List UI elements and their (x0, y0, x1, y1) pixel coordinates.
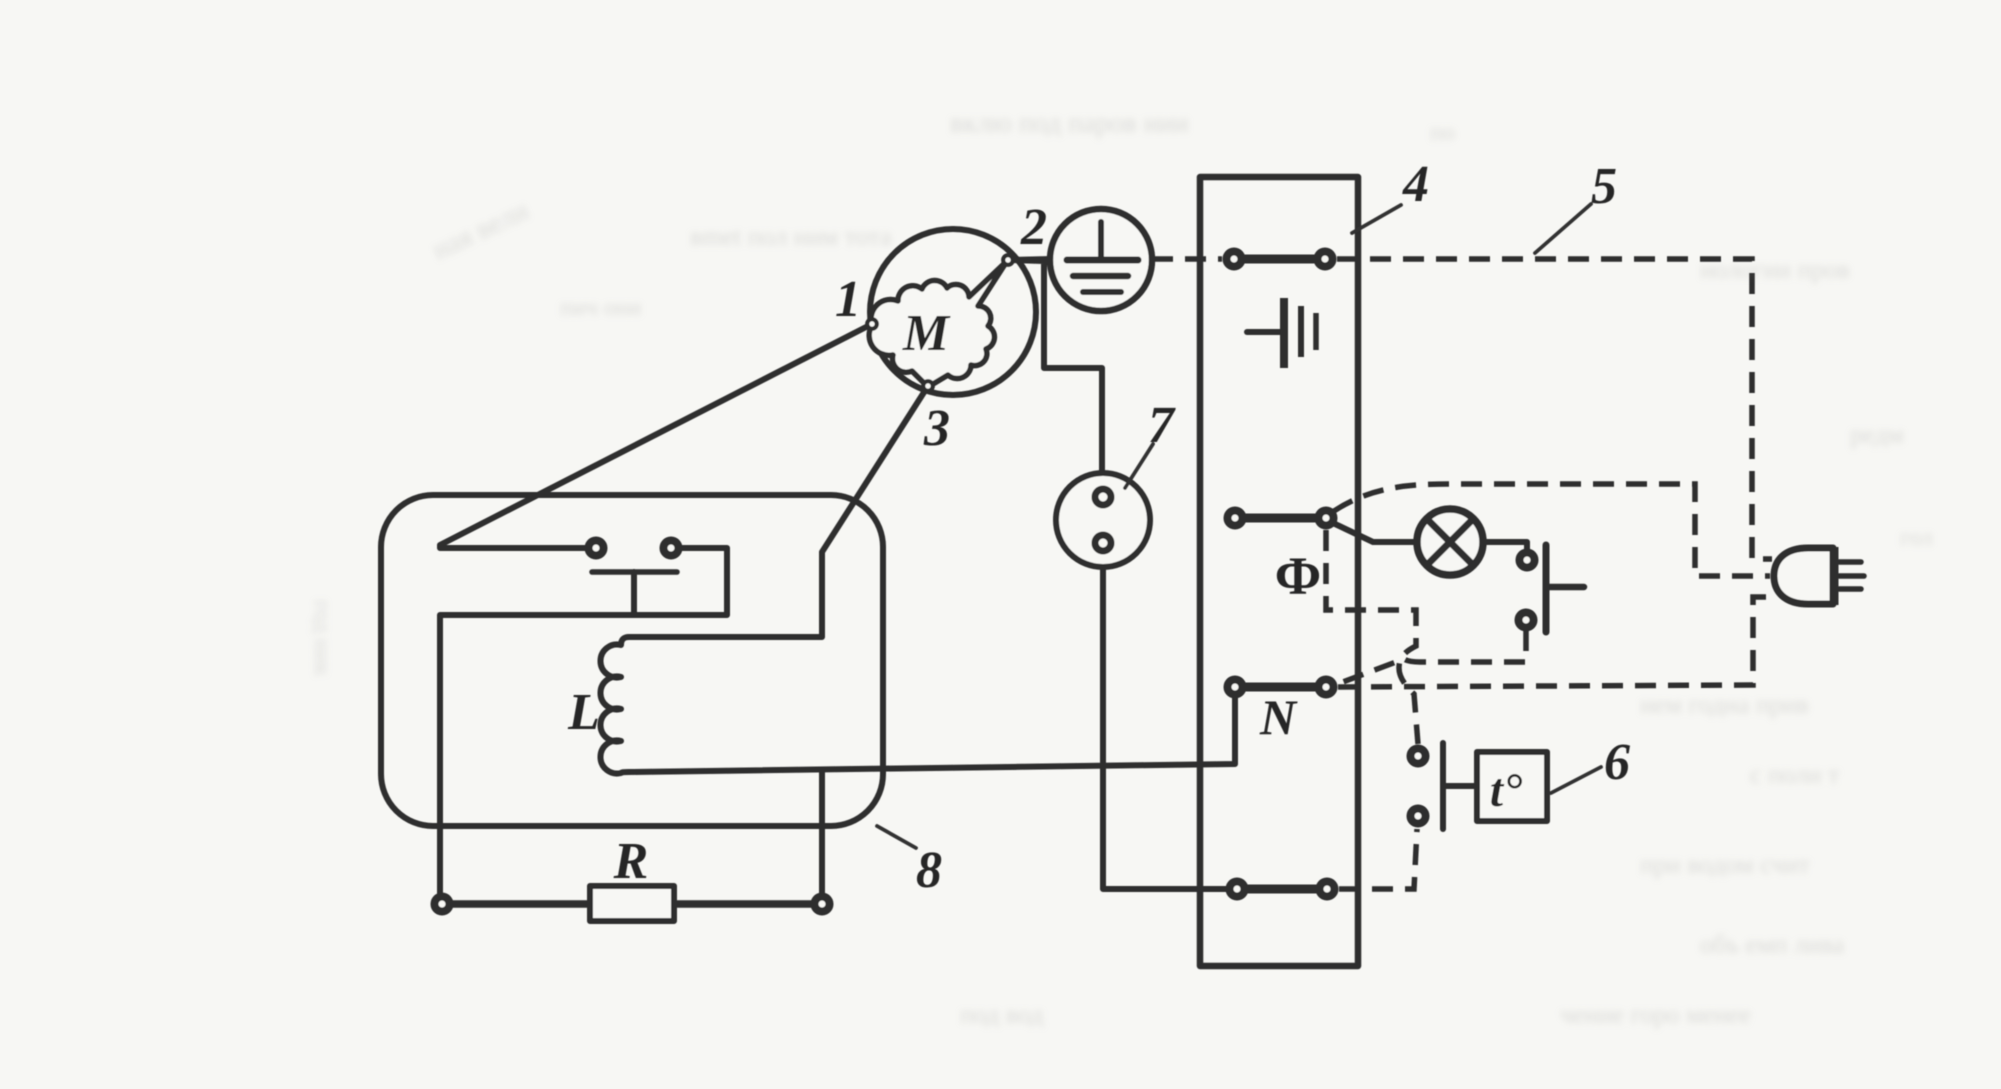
svg-text:1: 1 (835, 271, 861, 328)
svg-text:8: 8 (916, 842, 942, 899)
svg-text:4: 4 (1402, 156, 1429, 213)
svg-text:N: N (1259, 689, 1298, 745)
svg-text:2: 2 (1020, 199, 1047, 256)
svg-text:t°: t° (1490, 764, 1523, 817)
svg-text:R: R (613, 833, 649, 890)
svg-text:3: 3 (923, 400, 950, 457)
svg-text:5: 5 (1591, 158, 1617, 215)
svg-text:Ф: Ф (1275, 546, 1321, 606)
svg-text:6: 6 (1604, 734, 1630, 791)
svg-text:7: 7 (1148, 397, 1176, 454)
svg-text:M: M (902, 305, 951, 362)
svg-text:L: L (567, 684, 600, 741)
